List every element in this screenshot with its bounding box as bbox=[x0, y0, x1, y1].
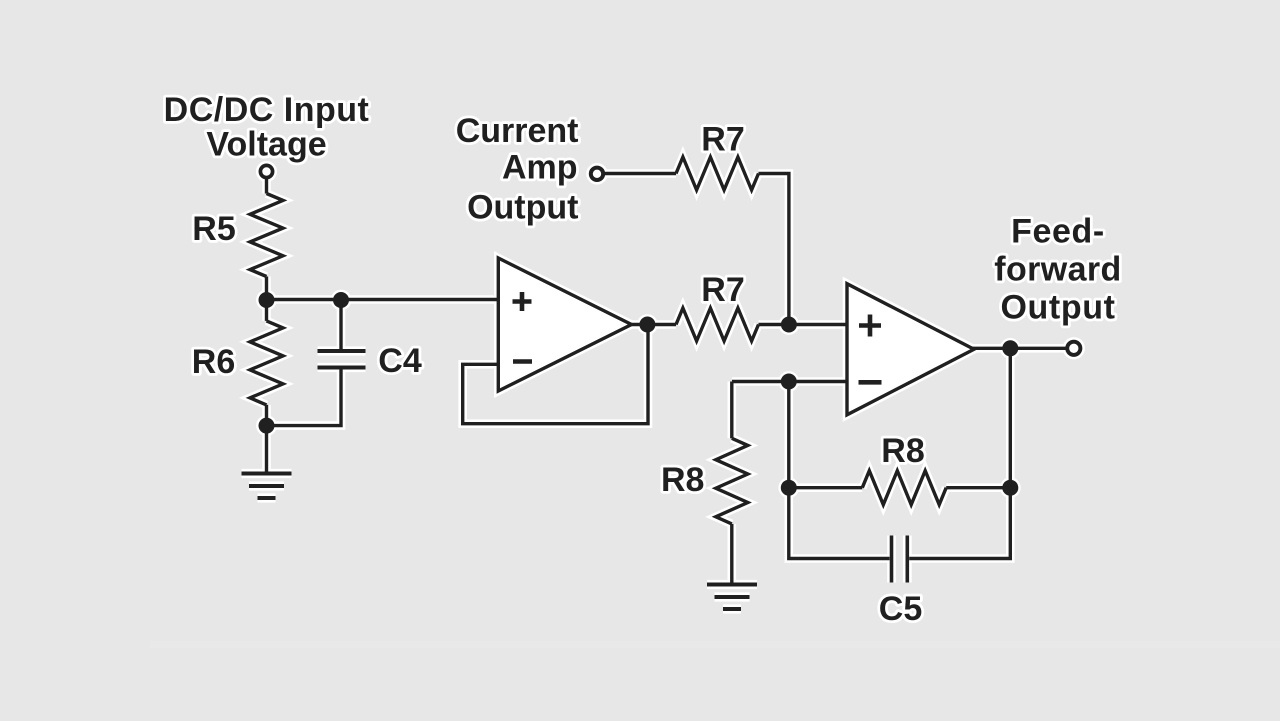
svg-text:forward: forward bbox=[994, 251, 1121, 289]
svg-text:Amp: Amp bbox=[502, 149, 578, 187]
svg-text:C5: C5 bbox=[879, 590, 922, 628]
svg-text:Voltage: Voltage bbox=[206, 126, 326, 164]
svg-text:R8: R8 bbox=[661, 461, 704, 499]
svg-text:Output: Output bbox=[467, 189, 578, 227]
svg-text:Current: Current bbox=[456, 112, 579, 150]
svg-text:Output: Output bbox=[1001, 289, 1116, 327]
svg-text:R5: R5 bbox=[192, 210, 235, 248]
svg-text:C4: C4 bbox=[378, 342, 422, 380]
svg-text:R6: R6 bbox=[192, 343, 235, 381]
svg-text:R8: R8 bbox=[881, 432, 924, 470]
svg-text:R7: R7 bbox=[701, 121, 744, 159]
svg-text:DC/DC Input: DC/DC Input bbox=[164, 91, 370, 129]
svg-text:R7: R7 bbox=[701, 271, 744, 309]
svg-text:Feed-: Feed- bbox=[1011, 213, 1105, 251]
